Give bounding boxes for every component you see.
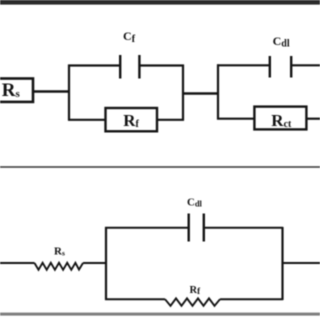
wire: block1 right vertical [182,65,184,121]
wire: zigzag to block [83,262,107,264]
wire: bottom block top branch right [204,227,283,229]
resistor R_s (zigzag) [35,246,84,270]
wire: block2 top branch left [217,64,270,66]
wire node Rs to block1 [33,90,69,92]
svg-text:Rs: Rs [2,80,21,101]
wire: bottom block top branch left [105,227,189,229]
wire: block1 left vertical [68,65,70,121]
wire: bottom circuit right lead to edge [283,262,320,264]
svg-text:Rf: Rf [123,111,139,130]
capacitor C_f [120,29,139,79]
wire: bottom block right vertical [281,227,283,300]
wire node between block1 and block2 [183,92,219,94]
resistor R_s (box, clipped at left edge) [0,79,33,102]
svg-text:Cdl: Cdl [273,34,290,50]
resistor R_ct (box) [254,107,306,130]
svg-text:Rs: Rs [54,246,65,258]
resistor R_f (box) [106,108,158,131]
svg-text:Rct: Rct [271,111,292,130]
wire: block1 top branch right [139,64,184,66]
wire: block2 bottom branch left [217,118,255,120]
wire: bottom block bottom branch left [105,298,165,300]
capacitor C_dl (bottom circuit) [187,197,204,242]
wire: zigzag to right vertical [220,298,283,300]
resistor R_f (zigzag, bottom circuit) [165,285,220,306]
svg-text:Rf: Rf [190,285,202,296]
svg-text:Cf: Cf [123,29,136,45]
wire: block2 top branch right to edge [291,64,320,66]
top border bar [0,0,320,5]
panel separator line [0,166,320,168]
wire: bottom block left vertical [105,227,107,300]
wire: block2 bottom branch right to edge [306,118,320,120]
bottom border bar [0,313,320,316]
wire: block1 top branch left [68,64,120,66]
wire: block2 left vertical [217,64,219,119]
wire: bottom circuit left lead [0,262,35,264]
svg-text:Cdl: Cdl [187,197,203,209]
capacitor C_dl [270,34,291,78]
wire: block1 bottom branch right [157,119,184,121]
wire: block1 bottom branch left [68,119,106,121]
